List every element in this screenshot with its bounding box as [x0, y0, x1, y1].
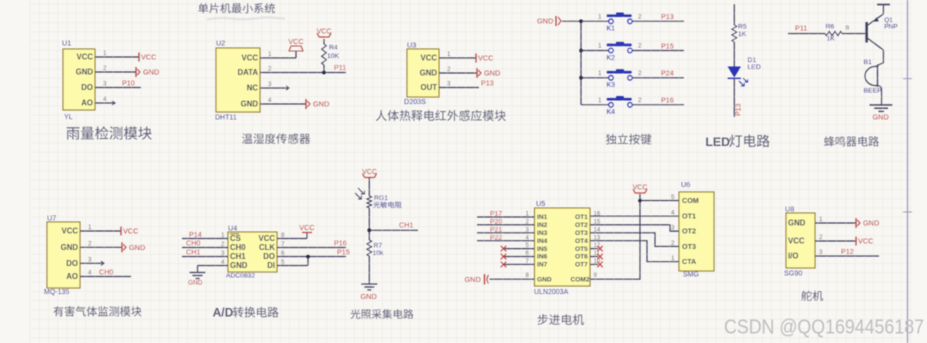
svg-text:B: B — [846, 26, 850, 32]
svg-text:1: 1 — [598, 43, 602, 50]
svg-text:GND: GND — [873, 113, 889, 122]
svg-text:CH1: CH1 — [399, 221, 413, 230]
svg-text:GND: GND — [230, 261, 248, 270]
svg-text:VCC: VCC — [141, 53, 156, 62]
svg-text:10K: 10K — [327, 53, 340, 60]
svg-text:P11: P11 — [334, 63, 346, 72]
svg-text:VCC: VCC — [259, 234, 276, 243]
svg-text:SMG: SMG — [683, 272, 699, 279]
svg-text:U2: U2 — [216, 39, 225, 48]
svg-text:2: 2 — [819, 234, 823, 241]
svg-text:OT1: OT1 — [682, 211, 696, 220]
svg-text:OT6: OT6 — [575, 254, 588, 261]
svg-text:GND: GND — [143, 68, 159, 77]
svg-text:1: 1 — [598, 70, 602, 77]
svg-text:OT3: OT3 — [575, 230, 588, 237]
svg-text:CS: CS — [230, 234, 241, 243]
svg-text:AO: AO — [66, 272, 78, 281]
svg-text:R5: R5 — [738, 24, 747, 31]
svg-text:RG1: RG1 — [374, 195, 388, 202]
svg-text:COM2: COM2 — [571, 277, 590, 284]
svg-text:VCC: VCC — [478, 54, 493, 63]
svg-text:GND: GND — [313, 100, 329, 109]
svg-text:GND: GND — [61, 243, 79, 252]
svg-text:A/D: A/D — [213, 306, 234, 320]
svg-text:P13: P13 — [736, 103, 743, 116]
svg-text:R4: R4 — [329, 45, 338, 52]
svg-text:LED: LED — [748, 64, 761, 71]
svg-text:P17: P17 — [490, 211, 502, 218]
svg-text:VCC: VCC — [62, 227, 79, 236]
svg-text:CH0: CH0 — [230, 243, 246, 252]
svg-text:U8: U8 — [785, 205, 794, 214]
svg-text:4: 4 — [268, 97, 272, 104]
svg-text:3: 3 — [103, 81, 107, 88]
svg-text:CH0: CH0 — [186, 239, 200, 248]
svg-text:4: 4 — [88, 270, 92, 277]
svg-text:CTA: CTA — [682, 257, 696, 266]
svg-text:GND: GND — [484, 69, 500, 78]
svg-text:GND: GND — [361, 292, 377, 301]
svg-text:2: 2 — [447, 66, 451, 73]
svg-text:AO: AO — [81, 99, 93, 108]
svg-text:NC: NC — [247, 84, 259, 93]
svg-text:P10: P10 — [122, 79, 135, 88]
svg-text:VCC: VCC — [242, 54, 259, 63]
svg-text:PNP: PNP — [884, 24, 897, 31]
svg-text:K3: K3 — [607, 82, 616, 89]
svg-text:DI: DI — [267, 261, 275, 270]
svg-text:LED: LED — [705, 135, 730, 149]
svg-text:GND: GND — [465, 275, 481, 284]
svg-text:2: 2 — [268, 66, 272, 73]
svg-text:K4: K4 — [607, 109, 616, 116]
svg-text:OT3: OT3 — [682, 242, 696, 251]
svg-text:P11: P11 — [795, 24, 807, 33]
svg-text:U5: U5 — [536, 199, 545, 208]
svg-text:2: 2 — [638, 97, 642, 104]
svg-text:2: 2 — [638, 43, 642, 50]
svg-text:10k: 10k — [373, 250, 385, 257]
svg-text:OT7: OT7 — [575, 262, 588, 269]
svg-text:4: 4 — [103, 96, 107, 103]
svg-text:P16: P16 — [334, 239, 347, 248]
svg-text:GND: GND — [788, 219, 806, 228]
svg-text:P22: P22 — [490, 234, 502, 241]
svg-text:OT2: OT2 — [575, 222, 588, 229]
svg-text:R7: R7 — [374, 243, 383, 250]
svg-text:1: 1 — [598, 13, 602, 20]
svg-text:DO: DO — [263, 252, 275, 261]
svg-text:COM: COM — [682, 196, 699, 205]
svg-text:2: 2 — [103, 65, 107, 72]
svg-text:GND: GND — [76, 68, 94, 77]
svg-text:K2: K2 — [607, 55, 616, 62]
svg-text:GND: GND — [420, 69, 438, 78]
svg-text:CH1: CH1 — [186, 248, 200, 257]
svg-text:B1: B1 — [864, 59, 873, 66]
svg-text:IN6: IN6 — [537, 254, 548, 261]
svg-text:ULN2003A: ULN2003A — [534, 289, 569, 296]
svg-text:1K: 1K — [827, 36, 836, 43]
svg-text:GND: GND — [129, 243, 145, 252]
svg-text:VCC: VCC — [858, 237, 873, 246]
svg-text:VCC: VCC — [362, 169, 377, 176]
svg-text:P15: P15 — [661, 41, 674, 50]
svg-text:IN7: IN7 — [537, 262, 548, 269]
svg-text:DO: DO — [81, 83, 93, 92]
svg-text:IN1: IN1 — [537, 214, 548, 221]
svg-text:3: 3 — [268, 81, 272, 88]
svg-text:CSDN @QQ1694456187: CSDN @QQ1694456187 — [724, 317, 924, 339]
svg-text:3: 3 — [447, 81, 451, 88]
svg-text:GND: GND — [188, 280, 203, 287]
svg-text:2: 2 — [638, 70, 642, 77]
svg-text:IN4: IN4 — [537, 238, 548, 245]
svg-text:U6: U6 — [681, 180, 690, 189]
svg-text:P15: P15 — [337, 248, 350, 257]
svg-text:1: 1 — [598, 97, 602, 104]
svg-text:DO: DO — [66, 259, 78, 268]
svg-text:U1: U1 — [62, 39, 71, 48]
svg-text:CH0: CH0 — [99, 268, 113, 277]
svg-text:DHT11: DHT11 — [215, 115, 237, 122]
svg-text:OUT: OUT — [421, 83, 438, 92]
svg-text:VCC: VCC — [77, 53, 94, 62]
svg-text:GND: GND — [241, 100, 259, 109]
svg-text:OT5: OT5 — [575, 246, 588, 253]
svg-text:SG90: SG90 — [784, 269, 802, 278]
svg-text:IN5: IN5 — [537, 246, 548, 253]
svg-text:OT2: OT2 — [682, 227, 696, 236]
svg-text:GND: GND — [863, 219, 879, 228]
svg-text:1: 1 — [88, 224, 92, 231]
svg-text:IN3: IN3 — [537, 230, 548, 237]
svg-text:1: 1 — [819, 216, 823, 223]
svg-text:P16: P16 — [661, 96, 674, 105]
svg-text:VCC: VCC — [299, 223, 314, 232]
svg-text:P12: P12 — [841, 247, 854, 256]
svg-text:P20: P20 — [490, 219, 502, 226]
svg-text:2: 2 — [638, 13, 642, 20]
svg-text:GND: GND — [537, 17, 553, 26]
svg-text:CLK: CLK — [259, 243, 275, 252]
svg-text:P13: P13 — [481, 79, 494, 88]
svg-text:1: 1 — [447, 51, 451, 58]
svg-text:1: 1 — [103, 50, 107, 57]
svg-text:P13: P13 — [661, 12, 674, 21]
svg-text:IN2: IN2 — [537, 222, 548, 229]
svg-text:I/O: I/O — [788, 252, 798, 261]
svg-text:MQ-135: MQ-135 — [44, 289, 69, 296]
svg-text:U7: U7 — [47, 214, 56, 223]
svg-text:DATA: DATA — [238, 68, 259, 77]
svg-text:3: 3 — [88, 257, 92, 264]
svg-text:R6: R6 — [826, 24, 835, 31]
svg-text:1: 1 — [268, 51, 272, 58]
svg-text:K1: K1 — [607, 26, 616, 33]
svg-text:VCC: VCC — [123, 227, 138, 236]
svg-text:YL: YL — [64, 112, 73, 121]
svg-text:VCC: VCC — [788, 237, 805, 246]
svg-text:4: 4 — [671, 209, 675, 216]
svg-text:P24: P24 — [661, 69, 674, 78]
svg-text:U3: U3 — [407, 41, 416, 50]
svg-text:CH1: CH1 — [230, 252, 246, 261]
svg-text:BEEP: BEEP — [864, 88, 883, 95]
svg-text:OT4: OT4 — [575, 238, 588, 245]
svg-text:VCC: VCC — [288, 37, 303, 46]
svg-text:2: 2 — [88, 241, 92, 248]
svg-text:P21: P21 — [490, 227, 502, 234]
svg-text:1K: 1K — [738, 31, 747, 38]
svg-text:U4: U4 — [228, 224, 237, 233]
svg-text:3: 3 — [819, 249, 823, 256]
svg-text:D203S: D203S — [404, 97, 426, 106]
svg-text:VCC: VCC — [317, 29, 332, 36]
svg-text:VCC: VCC — [421, 54, 438, 63]
svg-text:ADC0832: ADC0832 — [226, 273, 255, 280]
svg-text:OT1: OT1 — [575, 214, 588, 221]
svg-text:GND: GND — [537, 277, 552, 284]
svg-text:VCC: VCC — [633, 185, 648, 192]
